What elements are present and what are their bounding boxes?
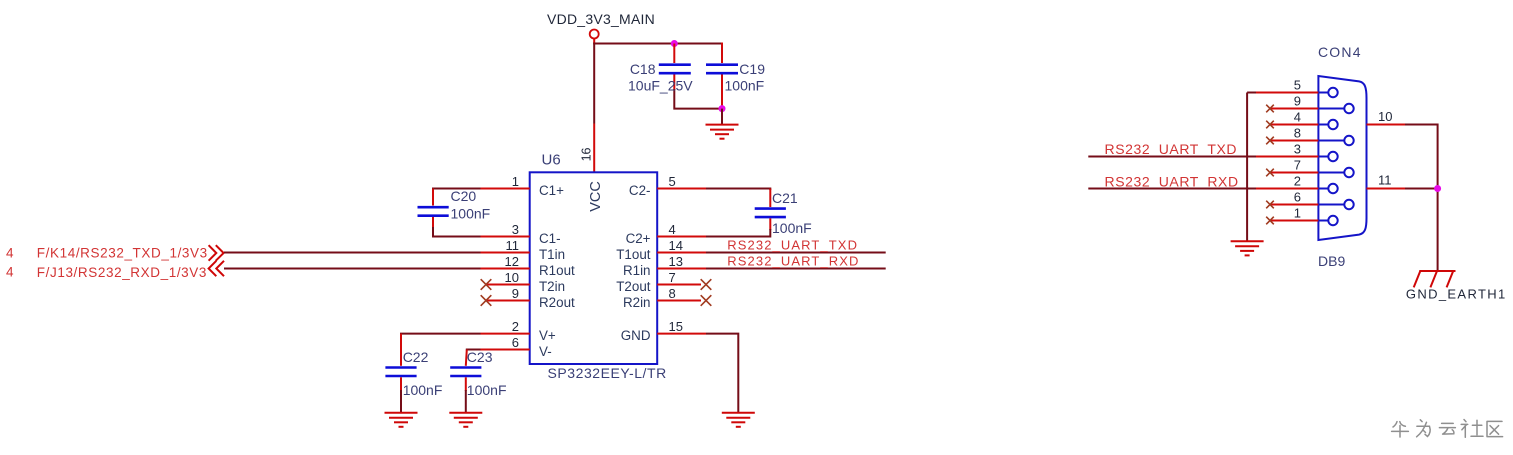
no-connect X DB9 pin 9 <box>1266 105 1274 113</box>
wire RXD left <box>224 268 481 270</box>
no-connect X DB9 pin 7 <box>1266 169 1274 177</box>
svg-text:SP3232EEY-L/TR: SP3232EEY-L/TR <box>548 365 667 381</box>
no-connect X DB9 pin 1 <box>1266 217 1274 225</box>
pin 8 R2in <box>657 300 701 302</box>
svg-text:C23: C23 <box>467 349 493 365</box>
svg-text:C1+: C1+ <box>539 183 564 198</box>
svg-text:4: 4 <box>6 265 14 280</box>
svg-text:GND_EARTH1: GND_EARTH1 <box>1406 287 1507 302</box>
wire C22 to ground <box>400 390 402 413</box>
pin 6 V- <box>481 349 530 351</box>
svg-text:T2in: T2in <box>539 279 565 294</box>
svg-text:C19: C19 <box>739 61 765 77</box>
svg-text:15: 15 <box>669 319 683 334</box>
ground symbol below C22 <box>385 413 418 427</box>
DB9 pin 10 <box>1367 124 1407 126</box>
power port VDD_3V3_MAIN circle <box>590 30 599 39</box>
capacitor C21 wire bottom loop <box>706 229 770 237</box>
no-connect X pin 8 <box>701 295 712 306</box>
svg-text:DB9: DB9 <box>1318 253 1345 269</box>
svg-text:C20: C20 <box>451 188 477 204</box>
svg-text:C1-: C1- <box>539 231 561 246</box>
svg-text:6: 6 <box>1294 190 1301 205</box>
capacitor C20 wire bottom loop <box>433 227 481 237</box>
wire power stub below circle <box>593 39 595 44</box>
svg-text:7: 7 <box>1294 158 1301 173</box>
DB9 pin 2 <box>1256 188 1318 190</box>
DB9 pin 6 <box>1270 204 1318 206</box>
svg-text:8: 8 <box>669 286 676 301</box>
pin 2 V+ <box>481 333 530 335</box>
svg-text:13: 13 <box>669 254 683 269</box>
no-connect X pin 10 <box>481 279 492 290</box>
capacitor C22 wire top loop <box>401 334 481 335</box>
svg-text:T1out: T1out <box>616 247 651 262</box>
svg-text:5: 5 <box>669 174 676 189</box>
svg-text:1: 1 <box>512 174 519 189</box>
no-connect X DB9 pin 8 <box>1266 137 1274 145</box>
DB9 pin 9 <box>1270 108 1318 110</box>
svg-text:100nF: 100nF <box>772 220 812 236</box>
svg-text:12: 12 <box>505 254 519 269</box>
off-sheet chevron right TXD <box>209 245 224 261</box>
ground symbol below C23 <box>449 413 482 427</box>
capacitor C18 top stub <box>673 44 675 64</box>
DB9 pin 1 <box>1270 220 1318 222</box>
svg-text:T2out: T2out <box>616 279 651 294</box>
svg-text:C2-: C2- <box>629 183 651 198</box>
capacitor C20 plates <box>418 206 449 209</box>
svg-text:100nF: 100nF <box>725 78 765 94</box>
node junction at C19 bottom <box>719 105 726 112</box>
pin 3 C1- <box>481 236 530 238</box>
svg-text:C21: C21 <box>772 190 798 206</box>
svg-text:RS232_UART_RXD: RS232_UART_RXD <box>1105 173 1239 189</box>
svg-text:10: 10 <box>505 270 519 285</box>
capacitor C20 wire top loop <box>433 189 481 191</box>
wire junction to ground <box>721 109 723 125</box>
wire GND pin15 to ground <box>706 334 738 413</box>
node junction at C18 tap <box>671 40 678 47</box>
svg-text:T1in: T1in <box>539 247 565 262</box>
svg-text:2: 2 <box>1294 174 1301 189</box>
svg-text:2: 2 <box>512 319 519 334</box>
no-connect X pin 7 <box>701 279 712 290</box>
pin 1 C1+ <box>481 188 530 190</box>
watermark 华为云社区 <box>1392 420 1503 438</box>
capacitor C23 bottom stub <box>465 377 467 391</box>
svg-text:10uF_25V: 10uF_25V <box>628 78 693 94</box>
capacitor C19 top stub <box>721 43 723 64</box>
no-connect X DB9 pin 4 <box>1266 121 1274 129</box>
wire TXD left <box>224 252 481 254</box>
svg-text:100nF: 100nF <box>451 205 491 221</box>
svg-text:R2in: R2in <box>623 295 651 310</box>
wire DB9 pin5 bus down to ground <box>1246 93 1248 242</box>
svg-text:F/K14/RS232_TXD_1/3V3: F/K14/RS232_TXD_1/3V3 <box>37 246 208 261</box>
pin 13 R1in <box>657 268 706 270</box>
wire C23 to ground <box>465 390 467 413</box>
capacitor C22 top stub <box>400 334 402 366</box>
pin 16 VCC red pin <box>593 124 595 173</box>
no-connect X DB9 pin 6 <box>1266 201 1274 209</box>
wire pin11 to vertical <box>1405 188 1438 190</box>
pin 11 T1in <box>481 252 530 254</box>
svg-text:F/J13/RS232_RXD_1/3V3: F/J13/RS232_RXD_1/3V3 <box>37 265 207 280</box>
svg-text:GND: GND <box>621 328 651 343</box>
svg-text:9: 9 <box>1294 94 1301 109</box>
capacitor C23 plates <box>450 366 481 369</box>
capacitor C19 bottom stub <box>721 75 723 109</box>
capacitor C19 plates <box>706 63 738 66</box>
capacitor C18 bottom stub <box>673 75 675 91</box>
ground symbol below C19 <box>706 125 739 139</box>
DB9 pin 8 <box>1270 140 1318 142</box>
wire TXD right <box>706 252 886 254</box>
svg-text:RS232_UART_TXD: RS232_UART_TXD <box>1105 141 1238 157</box>
pin 10 T2in <box>486 284 530 286</box>
capacitor C18 plates <box>659 63 691 66</box>
svg-text:100nF: 100nF <box>467 382 507 398</box>
svg-text:C2+: C2+ <box>626 231 651 246</box>
DB9 pin 11 <box>1367 188 1407 190</box>
svg-text:4: 4 <box>6 246 14 261</box>
svg-text:U6: U6 <box>542 152 561 169</box>
pin 9 R2out <box>486 300 530 302</box>
capacitor C20 top stub <box>432 189 434 206</box>
capacitor C22 plates <box>385 366 416 369</box>
IC U6 body <box>530 172 658 364</box>
capacitor C21 plates <box>755 207 786 210</box>
ground symbol below pin 15 <box>722 413 755 427</box>
pin 15 GND <box>657 333 706 335</box>
DB9 pin 3 <box>1256 156 1318 158</box>
svg-text:V-: V- <box>539 344 552 359</box>
pin 7 T2out <box>657 284 701 286</box>
svg-text:1: 1 <box>1294 206 1301 221</box>
svg-text:C22: C22 <box>403 349 429 365</box>
capacitor C23 wire top loop <box>466 349 481 351</box>
capacitor C22 bottom stub <box>400 377 402 391</box>
wire C18 bottom to junction <box>674 89 722 109</box>
svg-text:VCC: VCC <box>588 181 604 212</box>
svg-text:4: 4 <box>1294 110 1301 125</box>
off-sheet chevron left RXD <box>209 261 224 276</box>
capacitor C21 top stub <box>769 189 771 208</box>
svg-text:C18: C18 <box>630 61 656 77</box>
connector CON4 DB9 body <box>1318 76 1366 240</box>
capacitor C20 bottom stub <box>432 217 434 228</box>
DB9 pin 4 <box>1270 124 1318 126</box>
pin 12 R1out <box>481 268 530 270</box>
wire RXD right <box>706 268 886 270</box>
DB9 pin 5 <box>1247 92 1257 94</box>
wire vertical VDD down to pin 16 <box>593 43 595 124</box>
svg-text:R2out: R2out <box>539 295 575 310</box>
svg-text:3: 3 <box>1294 142 1301 157</box>
svg-text:6: 6 <box>512 335 519 350</box>
capacitor C23 top stub <box>466 350 467 366</box>
svg-text:RS232_UART_TXD: RS232_UART_TXD <box>727 238 858 253</box>
svg-text:V+: V+ <box>539 328 556 343</box>
capacitor C21 bottom stub <box>769 218 771 230</box>
svg-text:RS232_UART_RXD: RS232_UART_RXD <box>727 253 859 268</box>
svg-text:8: 8 <box>1294 126 1301 141</box>
wire TXD to DB9 pin 3 <box>1088 156 1257 158</box>
svg-text:14: 14 <box>669 238 683 253</box>
svg-text:10: 10 <box>1378 109 1392 124</box>
svg-text:CON4: CON4 <box>1318 44 1362 60</box>
capacitor C21 wire top loop <box>706 189 770 191</box>
no-connect X pin 9 <box>481 295 492 306</box>
DB9 pin 7 <box>1270 172 1318 174</box>
ground symbol below DB9 <box>1231 241 1264 255</box>
svg-text:11: 11 <box>1378 173 1392 188</box>
svg-text:7: 7 <box>669 270 676 285</box>
svg-text:5: 5 <box>1294 78 1301 93</box>
pin 4 C2+ <box>657 236 706 238</box>
svg-text:3: 3 <box>512 222 519 237</box>
wire pin10 to vertical <box>1405 125 1438 272</box>
svg-text:9: 9 <box>512 286 519 301</box>
chassis ground GND_EARTH1 symbol <box>1414 271 1456 287</box>
node junction pin11 <box>1434 185 1441 192</box>
svg-text:R1in: R1in <box>623 263 651 278</box>
svg-text:VDD_3V3_MAIN: VDD_3V3_MAIN <box>547 11 655 27</box>
pin 5 C2- <box>657 188 706 190</box>
svg-text:16: 16 <box>580 147 594 161</box>
pin 14 T1out <box>657 252 706 254</box>
wire RXD to DB9 pin 2 <box>1088 188 1257 190</box>
svg-text:11: 11 <box>506 238 520 253</box>
wire top horizontal VDD rail to C19 <box>593 43 722 45</box>
svg-text:4: 4 <box>669 222 676 237</box>
svg-text:R1out: R1out <box>539 263 575 278</box>
svg-text:100nF: 100nF <box>403 382 443 398</box>
